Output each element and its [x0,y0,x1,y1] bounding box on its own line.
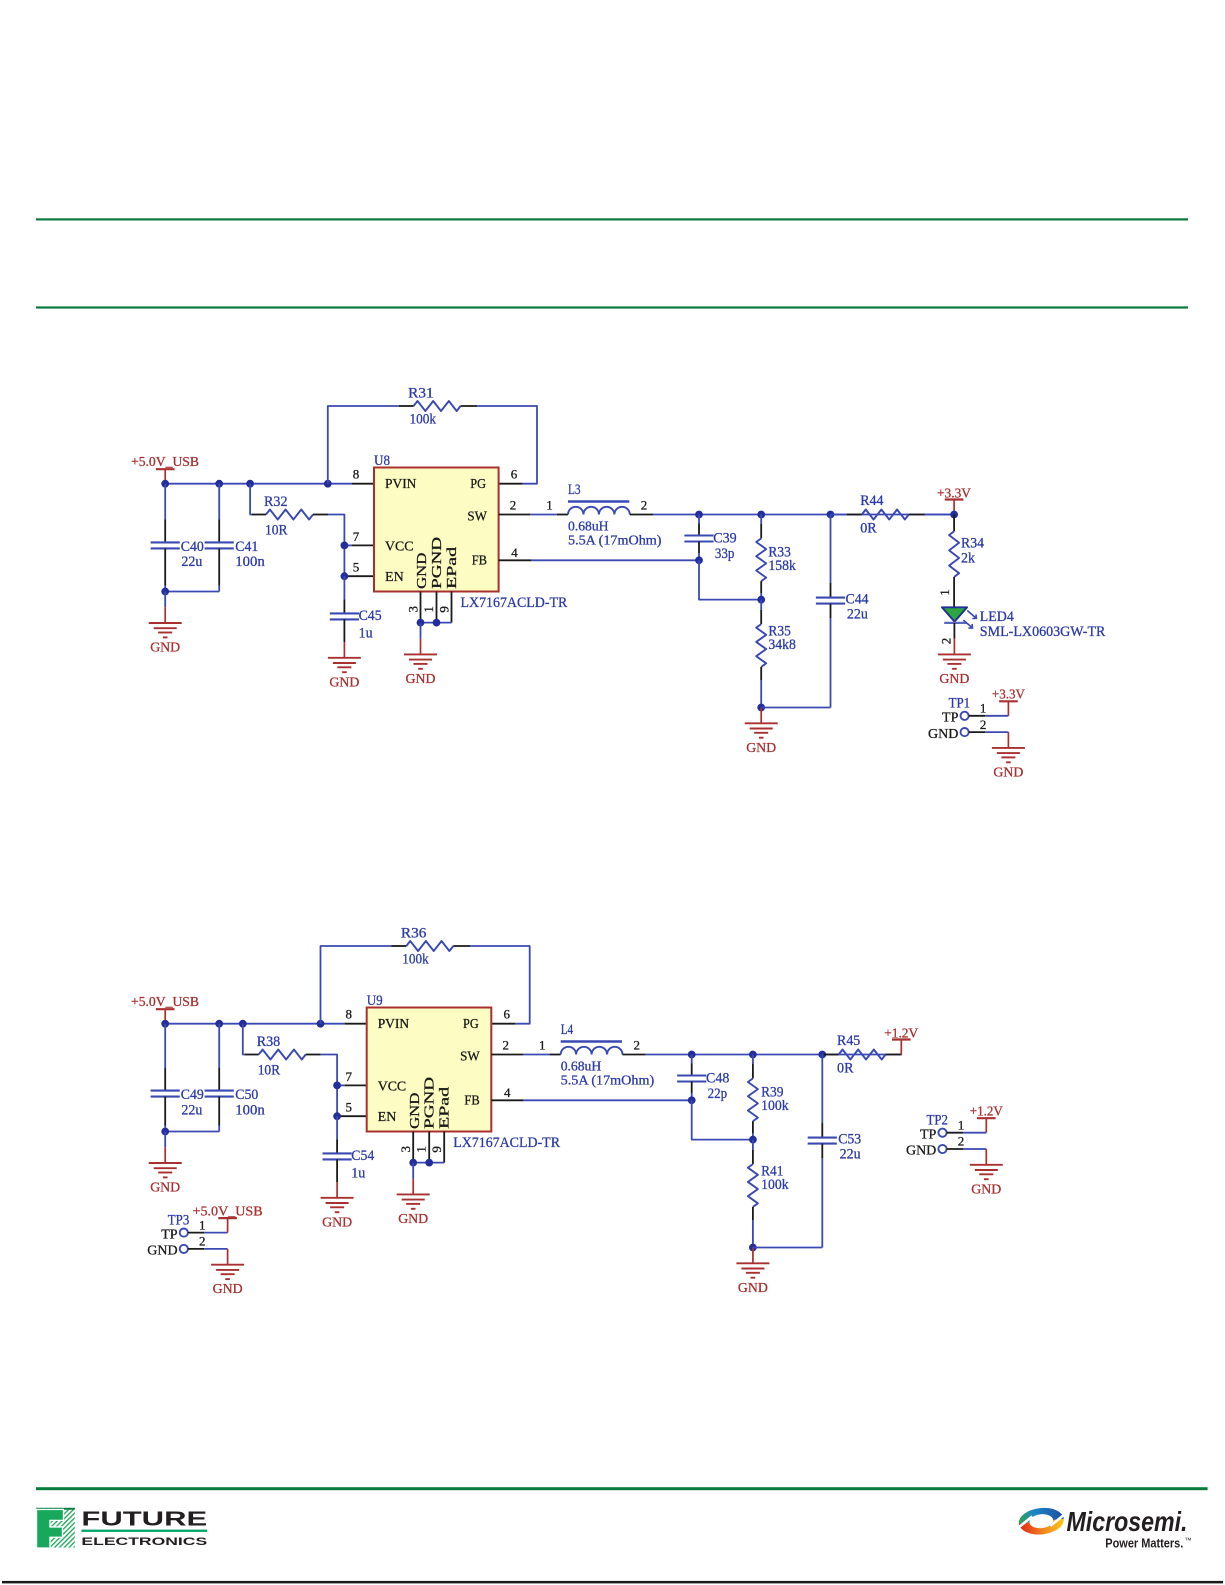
ground GND [397,1179,430,1227]
svg-text:5.5A (17mOhm): 5.5A (17mOhm) [568,533,662,548]
junction pin1 [425,1159,433,1167]
svg-text:TP3: TP3 [168,1212,190,1228]
svg-text:ELECTRONICS: ELECTRONICS [81,1536,208,1548]
svg-text:EN: EN [378,1110,397,1125]
junction at C48 [688,1051,696,1059]
wire rail to R38 [243,1024,245,1055]
svg-text:GND: GND [993,765,1023,780]
testpoint TP2 TP pad [938,1129,946,1137]
junction at R33 [757,511,765,519]
svg-text:R34: R34 [961,535,984,551]
ground GND [970,1149,1003,1197]
svg-text:PVIN: PVIN [385,477,416,492]
svg-text:R44: R44 [860,493,884,509]
header rule top [36,218,1188,220]
svg-text:GND: GND [150,641,180,656]
svg-text:8: 8 [345,1007,352,1022]
wire pin8 stub [345,1023,367,1025]
wire pin9 stub EPad [451,592,453,623]
svg-text:TP1: TP1 [949,696,971,712]
junction pin3 [417,619,425,627]
footer rule green [36,1487,1208,1490]
svg-text:PG: PG [463,1017,479,1032]
svg-text:100k: 100k [410,412,437,428]
svg-text:1u: 1u [359,626,373,642]
junction divider mid [749,1136,757,1144]
svg-text:+1.2V: +1.2V [884,1027,918,1042]
resistor R36 [391,941,470,951]
junction at EN [333,1112,341,1120]
svg-text:VCC: VCC [385,540,414,555]
svg-text:SW: SW [460,1049,480,1064]
svg-text:R45: R45 [837,1033,860,1049]
wire joining bottom pins [413,1162,444,1164]
wire FB net [491,1099,691,1101]
footer rule black [2,1581,1223,1584]
wire to ground [164,592,166,608]
svg-text:GND: GND [746,741,776,756]
wire rail to R32 [250,484,252,515]
svg-text:9: 9 [429,1146,444,1153]
svg-text:22u: 22u [181,1102,202,1118]
svg-text:1: 1 [539,1038,546,1053]
wire VCC stub [337,1084,367,1086]
svg-text:2: 2 [199,1234,206,1249]
svg-text:GND: GND [415,553,430,589]
svg-text:+5.0V_USB: +5.0V_USB [193,1204,263,1219]
capacitor C41 (100n) [205,484,234,592]
capacitor C49 (22u) [151,1024,180,1132]
capacitor C48 (22p) [677,1055,706,1101]
svg-text:C53: C53 [838,1131,861,1147]
logo Future Electronics icon [36,1508,75,1548]
capacitor C54 (1u) [323,1116,352,1182]
net +5.0V_USB power flag (input) [156,1009,175,1024]
svg-text:TP2: TP2 [927,1112,949,1128]
svg-text:1: 1 [421,606,436,613]
svg-text:+5.0V_USB: +5.0V_USB [131,455,199,470]
svg-text:0.68uH: 0.68uH [568,519,609,534]
svg-text:2: 2 [502,1038,509,1053]
ground GND [321,1182,354,1230]
svg-text:1: 1 [937,589,952,596]
svg-text:R32: R32 [264,494,288,510]
ground GND [404,639,437,687]
svg-text:L4: L4 [561,1022,574,1038]
svg-text:3: 3 [398,1146,413,1153]
junction FB at cap [688,1096,696,1104]
capacitor C44 (22u) [816,515,845,708]
wire TP pin 2 [969,731,1009,733]
svg-text:FUTURE: FUTURE [81,1507,207,1530]
svg-text:GND: GND [329,675,359,690]
svg-text:22p: 22p [708,1086,728,1102]
resistor R38 [245,1050,321,1060]
svg-text:GND: GND [213,1282,243,1297]
svg-text:PGND: PGND [423,1077,438,1129]
net +3.3V power flag at TP1 [999,701,1018,716]
svg-text:LED4: LED4 [980,609,1014,625]
svg-text:R31: R31 [408,386,434,402]
svg-text:™: ™ [1185,1538,1192,1545]
junction at EN [341,572,349,580]
svg-text:2: 2 [510,498,517,513]
svg-text:GND: GND [150,1181,180,1196]
svg-text:LX7167ACLD-TR: LX7167ACLD-TR [461,595,568,611]
junction on +5V rail under R36 [317,1020,325,1028]
svg-text:2: 2 [641,498,648,513]
ground GND [938,639,971,687]
net +1.2V power flag at TP2 [977,1118,996,1133]
wire FB to divider mid [692,1100,753,1139]
wire bottom pins to ground [412,1163,414,1179]
wire FB to divider mid [699,560,761,599]
ground GND [736,1248,769,1296]
svg-text:4: 4 [504,1085,511,1100]
svg-text:1u: 1u [351,1166,365,1182]
resistor R41 (100k) [748,1140,758,1248]
svg-text:9: 9 [437,606,452,613]
capacitor C39 (33p) [684,515,713,561]
svg-text:0R: 0R [837,1061,854,1077]
wire SW stub [499,514,557,516]
svg-text:GND: GND [738,1281,768,1296]
ground GND [328,642,361,690]
wire EN stub [337,1115,367,1117]
svg-text:3: 3 [406,606,421,613]
testpoint TP2 GND pad [938,1145,946,1153]
capacitor C45 (1u) [330,576,359,642]
svg-text:1: 1 [414,1146,429,1153]
junction on +5V rail at C input [161,1020,169,1028]
svg-text:1: 1 [958,1117,965,1132]
junction cap bottom [161,1128,169,1136]
wire SW output rail [653,514,954,516]
wire cap bottoms [165,1131,219,1133]
svg-text:C40: C40 [181,539,204,555]
op-amp/regulator IC U9 LX7167ACLD-TR [367,1008,492,1132]
ground GND [149,1147,182,1195]
wire R32 to VCC/EN [328,515,344,577]
wire pin3 stub [412,1132,414,1163]
wire TP pin 1 [947,1132,987,1134]
net +5.0V_USB power flag at TP3 [218,1218,237,1233]
svg-text:5.5A (17mOhm): 5.5A (17mOhm) [561,1073,655,1088]
svg-text:GND: GND [928,727,958,742]
capacitor C50 (100n) [205,1024,234,1132]
svg-text:TP: TP [161,1227,178,1242]
svg-text:22u: 22u [840,1147,861,1163]
wire +5V rail [165,483,352,485]
junction at R39 [749,1051,757,1059]
wire VCC stub [344,544,374,546]
wire pin1 stub [428,1132,430,1163]
resistor R32 [252,510,328,520]
junction FB at cap [695,556,703,564]
wire R38 to VCC/EN [321,1055,337,1117]
svg-text:GND: GND [971,1182,1001,1197]
svg-text:6: 6 [503,1007,510,1022]
svg-text:2: 2 [980,717,987,732]
capacitor C40 (22u) [151,484,180,592]
svg-text:22u: 22u [847,607,868,623]
svg-text:R38: R38 [257,1034,281,1050]
svg-text:PGND: PGND [430,537,445,589]
wire to ground [164,1132,166,1148]
svg-text:1: 1 [546,498,553,513]
svg-text:2: 2 [939,638,954,645]
svg-text:C45: C45 [359,608,382,624]
testpoint TP3 TP pad [180,1229,188,1237]
svg-text:6: 6 [511,467,518,482]
inductor L4 0.68uH [550,1042,646,1055]
svg-text:C44: C44 [846,591,869,607]
ground GND [211,1249,244,1297]
inductor L3 0.68uH [557,502,653,515]
testpoint TP1 TP pad [961,712,969,720]
wire pin1 stub [436,592,438,623]
svg-text:100n: 100n [235,1102,265,1118]
svg-text:7: 7 [353,529,360,544]
svg-text:+3.3V: +3.3V [992,688,1025,703]
wire bottom pins to ground [420,623,422,639]
resistor R35 (34k8) [756,600,766,708]
testpoint TP1 GND pad [961,728,969,736]
svg-text:SW: SW [467,509,487,524]
junction on +5V rail at R32 [246,480,254,488]
wire R36 left leg [321,946,392,1024]
junction at C39 [695,511,703,519]
wire TP pin 1 [969,715,1009,717]
svg-text:158k: 158k [768,558,796,574]
svg-text:C50: C50 [235,1087,258,1103]
logo Future Electronics green underline [81,1530,207,1532]
wire R31 left leg [328,406,399,484]
resistor R45 (0R) [822,1050,901,1060]
capacitor C53 (22u) [808,1055,837,1248]
svg-text:10R: 10R [265,523,288,539]
resistor R31 [399,401,478,411]
testpoint TP3 GND pad [180,1245,188,1253]
logo Microsemi swirl icon [1013,1505,1069,1537]
svg-text:LX7167ACLD-TR: LX7167ACLD-TR [453,1135,560,1151]
svg-text:L3: L3 [568,482,581,498]
wire SW output rail [646,1054,902,1056]
junction at +3.3V node [950,511,958,519]
LED LED4 SML-LX0603GW-TR [942,607,977,628]
wire R36 right leg to PG [470,946,530,1024]
svg-text:C54: C54 [351,1148,374,1164]
junction on +5V rail under R31 [324,480,332,488]
wire pin6 stub [499,483,523,485]
svg-text:Microsemi.: Microsemi. [1067,1506,1188,1537]
junction divider bottom [749,1244,757,1252]
wire joining bottom pins [421,622,452,624]
svg-text:TP: TP [920,1127,937,1142]
wire divider bottom to output cap [753,1247,822,1249]
wire SW stub [491,1054,549,1056]
wire LED cathode to ground [953,623,955,639]
wire pin6 stub [491,1023,515,1025]
junction on +5V rail at second cap [215,1020,223,1028]
svg-text:VCC: VCC [378,1080,407,1095]
resistor R39 (100k) [748,1055,758,1140]
svg-text:EPad: EPad [445,547,460,589]
svg-text:5: 5 [345,1100,352,1115]
junction at C53 [818,1051,826,1059]
junction cap bottom [161,588,169,596]
svg-text:1: 1 [980,701,987,716]
junction divider bottom [757,704,765,712]
svg-text:GND: GND [406,672,436,687]
svg-text:10R: 10R [258,1063,281,1079]
wire divider bottom to output cap [761,707,830,709]
svg-text:FB: FB [464,1093,479,1108]
svg-text:22u: 22u [181,554,202,570]
svg-text:U9: U9 [367,993,383,1009]
svg-text:1: 1 [199,1217,206,1232]
wire FB net [499,559,699,561]
header rule bottom [36,306,1188,308]
svg-text:7: 7 [345,1069,352,1084]
resistor R44 (0R) [831,510,955,520]
junction at VCC [333,1082,341,1090]
svg-text:100n: 100n [235,554,265,570]
wire cap bottoms [165,591,219,593]
net +3.3V power flag at output [945,500,964,515]
wire TP pin 1 [188,1232,228,1234]
svg-text:+3.3V: +3.3V [937,487,971,502]
svg-text:33p: 33p [715,546,735,562]
svg-text:C49: C49 [181,1087,204,1103]
svg-text:PG: PG [470,477,486,492]
svg-text:100k: 100k [761,1098,789,1114]
ground GND [992,732,1025,780]
junction on +5V rail at R38 [239,1020,247,1028]
svg-text:FB: FB [472,553,487,568]
svg-text:EN: EN [385,570,404,585]
svg-text:100k: 100k [761,1177,789,1193]
svg-text:0R: 0R [860,521,877,537]
op-amp/regulator IC U8 LX7167ACLD-TR [374,468,499,592]
svg-text:8: 8 [353,467,360,482]
svg-text:GND: GND [322,1215,352,1230]
junction on +5V rail at second cap [215,480,223,488]
svg-text:100k: 100k [402,952,429,968]
wire +5V rail [165,1023,345,1025]
wire pin8 stub [352,483,374,485]
svg-text:U8: U8 [374,453,390,469]
svg-text:34k8: 34k8 [768,637,796,653]
svg-text:2: 2 [633,1038,640,1053]
resistor R34 (2k) LED series [949,515,959,608]
svg-text:C41: C41 [235,539,258,555]
net +1.2V power flag at output [892,1040,911,1055]
svg-text:2k: 2k [961,551,975,567]
svg-text:C39: C39 [713,530,736,546]
junction pin3 [409,1159,417,1167]
svg-text:0.68uH: 0.68uH [561,1059,602,1074]
wire R31 right leg to PG [477,406,537,484]
resistor R33 (158k) [756,515,766,600]
wire EN stub [344,575,374,577]
svg-text:R36: R36 [401,926,427,942]
svg-text:4: 4 [511,545,518,560]
svg-text:GND: GND [408,1093,423,1129]
svg-text:GND: GND [906,1144,936,1159]
junction at VCC [341,542,349,550]
junction pin1 [433,619,441,627]
wire pin3 stub [420,592,422,623]
ground GND [149,607,182,655]
svg-text:EPad: EPad [438,1087,453,1129]
svg-text:C48: C48 [706,1070,729,1086]
svg-text:TP: TP [942,711,959,726]
wire TP pin 2 [188,1248,228,1250]
svg-text:+5.0V_USB: +5.0V_USB [131,995,199,1010]
junction at C44 [827,511,835,519]
svg-text:GND: GND [398,1212,428,1227]
svg-text:Power Matters.: Power Matters. [1105,1536,1183,1550]
svg-text:2: 2 [958,1134,965,1149]
ground GND [745,708,778,756]
svg-text:5: 5 [353,560,360,575]
wire TP pin 2 [947,1148,987,1150]
net +5.0V_USB power flag (input) [156,469,175,484]
junction on +5V rail at C input [161,480,169,488]
wire pin9 stub EPad [443,1132,445,1163]
svg-text:PVIN: PVIN [378,1017,409,1032]
svg-text:+1.2V: +1.2V [970,1104,1003,1119]
svg-text:SML-LX0603GW-TR: SML-LX0603GW-TR [980,624,1106,640]
junction divider mid [757,596,765,604]
svg-text:GND: GND [147,1244,177,1259]
svg-text:GND: GND [939,672,969,687]
